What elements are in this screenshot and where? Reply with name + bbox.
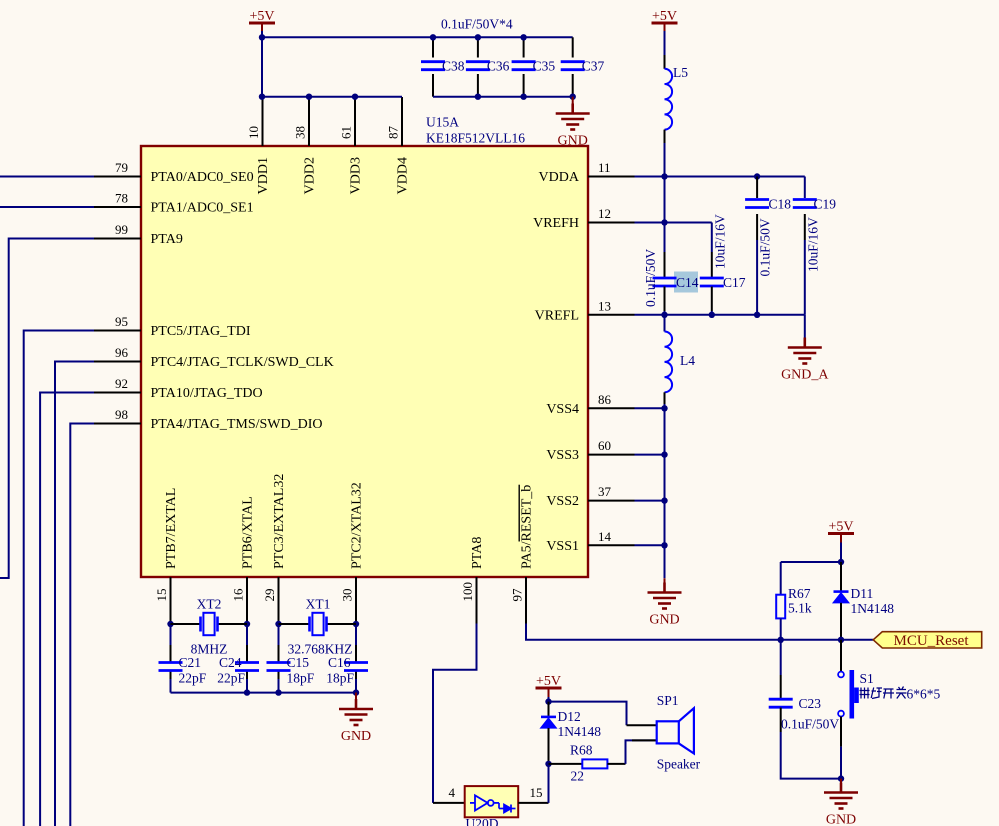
svg-text:R68: R68 [570, 743, 593, 758]
svg-text:PTA10/JTAG_TDO: PTA10/JTAG_TDO [151, 386, 263, 401]
capacitor C24 [235, 663, 259, 671]
wire pin16 down [246, 624, 248, 646]
svg-text:C18: C18 [769, 197, 792, 212]
wire R68 to speaker bottom terminal [607, 763, 625, 765]
capacitor C36 [466, 62, 490, 70]
svg-text:PTA4/JTAG_TMS/SWD_DIO: PTA4/JTAG_TMS/SWD_DIO [151, 417, 323, 432]
pin 12 VREFH [588, 222, 635, 224]
wire pin29 down [278, 624, 280, 646]
wire VDDA horizontal to C18 C19 [665, 176, 805, 178]
ground GND_A [788, 338, 822, 364]
capacitor C18 [745, 200, 769, 208]
resistor R68 leads [549, 763, 583, 765]
pin 86 VSS4 [588, 407, 635, 409]
wire pin15 down [170, 624, 172, 646]
resistor R68 [582, 759, 607, 768]
svg-text:15: 15 [530, 785, 543, 800]
svg-text:+5V: +5V [828, 520, 853, 535]
pin 95 PTC5/JTAG_TDI [94, 330, 141, 332]
pin 37 VSS2 [588, 500, 635, 502]
svg-text:KE18F512VLL16: KE18F512VLL16 [426, 131, 525, 146]
junction VDD rail / VDD1 [259, 94, 265, 100]
wire VREFL rail [635, 314, 805, 316]
svg-text:GND: GND [826, 813, 856, 826]
crystal XT2 [201, 613, 218, 635]
junction rail C24 [244, 689, 250, 695]
svg-text:1N4148: 1N4148 [558, 724, 602, 739]
junction VSS3 [661, 451, 667, 457]
wire reset node down to C23 [780, 640, 782, 675]
svg-text:VREFL: VREFL [535, 308, 579, 323]
power +5V (top left) [249, 23, 275, 32]
wire net to pin 96 [55, 362, 94, 826]
capacitor C15 [267, 663, 291, 671]
capacitor C35 leads [523, 37, 525, 57]
junction C36 bottom [475, 94, 481, 100]
junction VSS4 [661, 405, 667, 411]
wire VDD rail [262, 96, 402, 98]
capacitor C36 leads [477, 37, 479, 57]
junction +5V/top rail [259, 34, 265, 40]
svg-text:Speaker: Speaker [657, 757, 701, 772]
wire GND stub [572, 97, 574, 104]
svg-text:VDD1: VDD1 [256, 157, 271, 194]
ground GND (VSS) [648, 583, 682, 609]
wire rail to GND_A [804, 315, 806, 338]
wire R67 top lead [780, 562, 782, 595]
svg-text:GND: GND [649, 613, 679, 628]
svg-text:GND_A: GND_A [781, 368, 829, 383]
wire +5V to node [548, 697, 550, 702]
power +5V (VDDA) [652, 23, 678, 32]
svg-text:99: 99 [115, 222, 128, 237]
pin 61 VDD3 [354, 97, 356, 146]
op-amp U20D inverter box [465, 786, 519, 817]
junction top rail at C36 [475, 34, 481, 40]
svg-text:97: 97 [510, 588, 525, 602]
pin 79 PTA0/ADC0_SE0 [94, 176, 141, 178]
svg-text:U15A: U15A [426, 115, 459, 130]
svg-text:0.1uF/50V: 0.1uF/50V [781, 717, 839, 732]
junction VREFL / C18 [754, 312, 760, 318]
capacitor C19 [793, 200, 817, 208]
junction rail C15 [275, 689, 281, 695]
svg-text:29: 29 [262, 589, 277, 602]
svg-text:15: 15 [154, 589, 169, 602]
wire net to pin 99 (down and out left) [0, 239, 94, 579]
junction VSS2 [661, 497, 667, 503]
junction top rail at C38 [430, 34, 436, 40]
wire L4 to VSS net [664, 404, 666, 408]
wire MCU_Reset net (pin 97 to flag) [526, 624, 873, 640]
capacitor C17 [700, 278, 724, 286]
net label flag MCU_Reset [873, 632, 982, 648]
svg-text:GND: GND [558, 134, 588, 149]
wire pin to VSS4 [635, 407, 665, 409]
svg-text:60: 60 [598, 438, 611, 453]
wire pin to VSS3 [635, 454, 665, 456]
selection highlight on C14 [674, 272, 698, 293]
svg-text:C19: C19 [814, 197, 837, 212]
speaker SP1 [657, 708, 694, 753]
wire GND stub (crystals) [355, 693, 357, 699]
svg-text:C15: C15 [287, 655, 310, 670]
svg-text:37: 37 [598, 484, 612, 499]
junction C35 bottom [520, 94, 526, 100]
wire C21 to rail [170, 679, 172, 693]
svg-text:10uF/16V: 10uF/16V [806, 217, 821, 272]
svg-text:C16: C16 [328, 655, 351, 670]
open-drain symbol inside U20D [499, 803, 516, 813]
pin 30 PTC2/XTAL32 [355, 577, 357, 624]
wire C19 to rail [804, 240, 806, 315]
svg-text:+5V: +5V [536, 674, 561, 689]
capacitor C23 [769, 699, 793, 707]
junction VDD rail / VDD2 [306, 94, 312, 100]
pin 15 PTB7/EXTAL [170, 577, 172, 624]
pin 100 PTA8 [476, 577, 478, 624]
svg-text:C35: C35 [533, 59, 556, 74]
svg-text:98: 98 [115, 407, 128, 422]
pin 11 VDDA [588, 176, 635, 178]
svg-text:XT1: XT1 [306, 597, 331, 612]
capacitor C14 [653, 278, 677, 286]
wire C17 to VREFL rail [711, 311, 713, 315]
svg-text:C17: C17 [723, 275, 746, 290]
svg-text:PTC3/EXTAL32: PTC3/EXTAL32 [272, 474, 287, 569]
svg-text:22: 22 [571, 769, 585, 784]
junction C37 bottom / GND drop [570, 94, 576, 100]
svg-text:C37: C37 [582, 59, 605, 74]
capacitor C38 [421, 62, 445, 70]
wire net to pin 95 [24, 331, 94, 826]
svg-text:11: 11 [598, 160, 611, 175]
svg-text:79: 79 [115, 160, 128, 175]
svg-text:6*6*5: 6*6*5 [907, 687, 941, 702]
svg-text:VSS4: VSS4 [546, 402, 579, 417]
junction pin16/XT2 [244, 621, 250, 627]
svg-text:XT2: XT2 [197, 597, 222, 612]
capacitor C21 [159, 663, 183, 671]
wire to R67 top [781, 561, 841, 563]
junction GND node (reset) [838, 775, 844, 781]
svg-text:10uF/16V: 10uF/16V [713, 214, 728, 269]
svg-text:13: 13 [598, 298, 611, 313]
junction reset/R67 [778, 637, 784, 643]
crystal XT1 [310, 613, 327, 635]
svg-text:PTC2/XTAL32: PTC2/XTAL32 [350, 482, 365, 569]
switch S1 actuator bar [850, 670, 855, 719]
pin 13 VREFL [588, 314, 635, 316]
svg-text:VDD2: VDD2 [303, 157, 318, 194]
wire +5V node to speaker top terminal [549, 702, 627, 726]
wire C23 bottom to GND node [781, 732, 841, 779]
svg-text:22pF: 22pF [179, 671, 207, 686]
wire R67 bottom lead [780, 618, 782, 639]
junction VSS1 [661, 542, 667, 548]
svg-text:14: 14 [598, 529, 612, 544]
svg-text:D11: D11 [851, 586, 874, 601]
pin 87 VDD4 [401, 97, 403, 146]
wire net to pin 78 [0, 206, 94, 208]
svg-text:78: 78 [115, 191, 128, 206]
svg-text:SP1: SP1 [657, 693, 679, 708]
wire VSS vertical [664, 408, 666, 578]
svg-text:22pF: 22pF [217, 671, 245, 686]
junction rail C16 / GND [353, 689, 359, 695]
junction +5V/R67/D11 [838, 559, 844, 565]
wire U20D out up to R68/D12 node [548, 764, 550, 803]
wire C17 branch down [711, 223, 713, 253]
wire cap bottom rail [433, 96, 573, 98]
pin 38 VDD2 [308, 97, 310, 146]
wire VREFL to L4 [664, 315, 666, 332]
pin 16 PTB6/XTAL [246, 577, 248, 624]
junction reset/D11/S1 [838, 637, 844, 643]
junction VDD rail / VDD3 [352, 94, 358, 100]
junction pin29/XT1 [275, 621, 281, 627]
wire pin12 to node [635, 222, 665, 224]
junction VREFH pin 12 [661, 219, 667, 225]
svg-text:PTA1/ADC0_SE1: PTA1/ADC0_SE1 [151, 201, 254, 216]
wire C14 to VREFL rail [664, 311, 666, 315]
wire net to pin 92 [40, 393, 94, 826]
wire PTA8 pin100 to U20D input [433, 624, 477, 803]
junction top rail at C35 [520, 34, 526, 40]
pin 92 PTA10/JTAG_TDO [94, 392, 141, 394]
svg-text:U20D: U20D [466, 816, 499, 826]
wire C19 top lead [804, 177, 806, 199]
svg-text:VDD4: VDD4 [396, 157, 411, 194]
capacitor C16 [344, 663, 368, 671]
svg-text:L4: L4 [680, 353, 695, 368]
diode D12 1N4148 [541, 717, 556, 728]
svg-text:VDDA: VDDA [539, 170, 580, 185]
svg-text:86: 86 [598, 392, 612, 407]
wire C24 to rail [246, 679, 248, 693]
svg-text:C36: C36 [487, 59, 510, 74]
junction VDDA pin 11 [661, 173, 667, 179]
wire pin30 down [355, 624, 357, 646]
pin 4 U20D input lead [433, 802, 465, 804]
wire +5V top horizontal rail [262, 36, 573, 38]
svg-text:C14: C14 [676, 275, 699, 290]
ground GND (crystals) [339, 699, 373, 725]
pin 10 VDD1 [262, 97, 264, 146]
svg-text:10: 10 [246, 126, 261, 139]
pin 15 U20D output lead [518, 802, 548, 804]
svg-text:VSS2: VSS2 [546, 494, 579, 509]
wire pin11 to VDDA node [635, 176, 665, 178]
wire pin to VSS2 [635, 500, 665, 502]
svg-text:18pF: 18pF [287, 671, 315, 686]
power +5V (reset) [828, 534, 854, 543]
svg-text:PTC4/JTAG_TCLK/SWD_CLK: PTC4/JTAG_TCLK/SWD_CLK [151, 355, 334, 370]
capacitor C38 leads [432, 37, 434, 57]
svg-text:VDD3: VDD3 [349, 157, 364, 194]
junction +5V/D12/speaker [545, 698, 551, 704]
capacitor C37 leads [572, 37, 574, 57]
svg-text:92: 92 [115, 376, 128, 391]
svg-text:VSS1: VSS1 [546, 539, 579, 554]
pin 29 PTC3/EXTAL32 [278, 577, 280, 624]
wire S1 to GND node [840, 747, 842, 779]
svg-text:R67: R67 [788, 586, 811, 601]
wire +5V vertical to VDD rail [261, 31, 263, 97]
svg-text:GND: GND [341, 729, 371, 744]
svg-text:5.1k: 5.1k [788, 601, 812, 616]
wire VSS GND stub [664, 578, 666, 582]
wire L5 to VDDA node [664, 143, 666, 177]
power +5V (speaker) [536, 688, 562, 697]
wire pin to VSS1 [635, 544, 665, 546]
svg-text:+5V: +5V [652, 9, 677, 24]
svg-text:95: 95 [115, 314, 128, 329]
pin 96 PTC4/JTAG_TCLK/SWD_CLK [94, 361, 141, 363]
junction pin15/XT2 [167, 621, 173, 627]
svg-text:MCU_Reset: MCU_Reset [894, 633, 970, 649]
svg-text:38: 38 [293, 126, 308, 139]
capacitor C35 [512, 62, 536, 70]
svg-text:PTB6/XTAL: PTB6/XTAL [241, 496, 256, 569]
wire +5V to L5 [664, 31, 666, 55]
svg-text:C24: C24 [219, 655, 242, 670]
svg-text:PTA8: PTA8 [470, 537, 485, 569]
svg-text:VREFH: VREFH [533, 216, 579, 231]
svg-text:PA5/RESET_b: PA5/RESET_b [520, 485, 535, 569]
svg-text:0.1uF/50V*4: 0.1uF/50V*4 [441, 17, 513, 32]
svg-text:18pF: 18pF [326, 671, 354, 686]
op-amp U15A IC body KE18F512VLL16 [141, 146, 588, 577]
value 微动开关6*6*5 (S1) [860, 687, 907, 699]
svg-text:D12: D12 [558, 709, 581, 724]
wire crystal gnd rail [171, 692, 357, 694]
svg-text:S1: S1 [860, 671, 874, 686]
wire GND stub (reset) [840, 779, 842, 785]
svg-text:PTB7/EXTAL: PTB7/EXTAL [164, 488, 179, 569]
diode D11 1N4148 [834, 592, 849, 603]
ground GND (reset) [824, 783, 858, 809]
wire +5V down [840, 543, 842, 563]
svg-text:100: 100 [460, 582, 475, 602]
wire C18 to rail [756, 240, 758, 315]
pin 99 PTA9 [94, 238, 141, 240]
svg-text:PTC5/JTAG_TDI: PTC5/JTAG_TDI [151, 324, 251, 339]
svg-text:12: 12 [598, 206, 611, 221]
svg-text:C38: C38 [442, 59, 465, 74]
pin 60 VSS3 [588, 454, 635, 456]
svg-text:4: 4 [449, 785, 456, 800]
pin 78 PTA1/ADC0_SE1 [94, 206, 141, 208]
svg-text:16: 16 [231, 588, 246, 602]
svg-text:30: 30 [340, 589, 355, 602]
junction VDDA / C18 [754, 173, 760, 179]
wire net to pin 98 [70, 424, 94, 826]
svg-text:PTA9: PTA9 [151, 232, 183, 247]
svg-text:87: 87 [386, 126, 401, 140]
pin 98 PTA4/JTAG_TMS/SWD_DIO [94, 423, 141, 425]
ground GND (top decoupling) [556, 104, 590, 130]
wire C16 to rail [355, 679, 357, 693]
inductor L5 [665, 69, 673, 130]
svg-text:96: 96 [115, 345, 129, 360]
wire C15 to rail [278, 679, 280, 693]
wire VREFH to C17 branch [665, 222, 712, 224]
svg-text:VSS3: VSS3 [546, 448, 579, 463]
pin 97 PA5/RESET_b [525, 577, 527, 624]
wire net to pin 79 [0, 176, 94, 178]
svg-text:1N4148: 1N4148 [851, 601, 895, 616]
switch S1 pins [840, 640, 842, 672]
svg-text:C23: C23 [799, 696, 822, 711]
svg-text:C21: C21 [179, 655, 202, 670]
pin 14 VSS1 [588, 544, 635, 546]
junction pin30/XT1 [353, 621, 359, 627]
svg-text:PTA0/ADC0_SE0: PTA0/ADC0_SE0 [151, 170, 254, 185]
resistor R67 [776, 595, 785, 619]
svg-text:L5: L5 [673, 65, 688, 80]
svg-text:61: 61 [339, 126, 354, 139]
wire VDDA down to C14 [664, 177, 666, 253]
svg-text:+5V: +5V [249, 9, 274, 24]
inductor L4 [665, 332, 673, 393]
junction VREFL / C17 [709, 312, 715, 318]
capacitor C37 [561, 62, 585, 70]
junction D12/R68/U20D [545, 761, 551, 767]
svg-text:0.1uF/50V: 0.1uF/50V [643, 249, 658, 307]
junction VREFL / C14 [661, 312, 667, 318]
switch S1 contact circles [838, 672, 844, 678]
capacitor C18 leads [756, 177, 758, 199]
svg-text:0.1uF/50V: 0.1uF/50V [758, 218, 773, 276]
inverter triangle U20D [475, 795, 488, 810]
